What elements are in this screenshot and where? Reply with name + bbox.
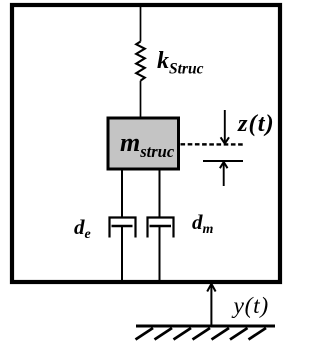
ground hatch 7 — [249, 328, 267, 340]
ground line — [136, 325, 275, 328]
z(t) down arrow — [224, 110, 226, 144]
z(t) up arrow — [223, 162, 225, 186]
svg-text:z(t): z(t) — [237, 110, 275, 137]
ground hatch 3 — [174, 328, 192, 340]
rod: mass to right damper — [159, 169, 161, 218]
rod: left damper to bottom wall — [121, 226, 123, 282]
rod: right damper to bottom wall — [159, 226, 161, 282]
damper d_m piston — [150, 225, 172, 228]
spring kStruc — [136, 42, 145, 81]
svg-text:y(t): y(t) — [232, 293, 269, 319]
ground hatch 1 — [136, 328, 154, 340]
mass mStruc block — [108, 118, 179, 169]
wire: spring to mass — [140, 81, 142, 118]
damper d_e piston — [112, 225, 133, 228]
ground hatch 6 — [230, 328, 248, 340]
wire: top wall to spring — [140, 7, 142, 42]
y(t) excitation arrow — [210, 284, 212, 326]
dashed reference line at mass — [181, 143, 244, 146]
outer frame box — [12, 5, 280, 282]
ground hatch 2 — [155, 328, 173, 340]
damper d_m cup — [148, 218, 174, 238]
rod: mass to left damper — [121, 169, 123, 218]
lower reference line — [203, 160, 243, 162]
damper d_e cup — [110, 218, 136, 238]
ground hatch 4 — [193, 328, 211, 340]
ground hatch 5 — [212, 328, 230, 340]
